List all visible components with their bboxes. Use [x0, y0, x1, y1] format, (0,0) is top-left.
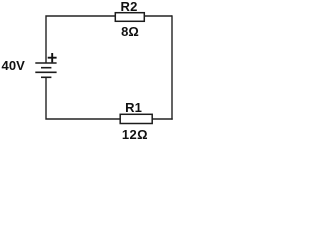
wire top-right segment (R2 right to top-right corner) [144, 15, 172, 17]
wire top-left segment (battery + to R2 left) [46, 16, 115, 63]
battery short negative plate (bottom) [41, 76, 51, 78]
battery long positive plate (lower cell) [35, 71, 56, 73]
wire bottom-left segment (R1 left to battery -) [46, 78, 120, 120]
svg-text:40V: 40V [2, 58, 26, 73]
resistor R1 (box) [120, 114, 152, 123]
battery B1 40V [35, 53, 56, 77]
battery long positive plate (top) [35, 62, 56, 64]
battery short negative plate [41, 67, 51, 69]
svg-text:12Ω: 12Ω [122, 127, 148, 141]
wire right side (top-right corner down to bottom-right corner) [171, 15, 173, 119]
svg-text:8Ω: 8Ω [121, 24, 139, 39]
resistor R2 (box) [115, 13, 144, 22]
battery plus polarity sign [48, 53, 57, 62]
wire bottom-right segment (bottom-right corner to R1 right) [152, 118, 173, 120]
svg-text:R1: R1 [125, 100, 142, 115]
svg-text:R2: R2 [120, 0, 137, 14]
